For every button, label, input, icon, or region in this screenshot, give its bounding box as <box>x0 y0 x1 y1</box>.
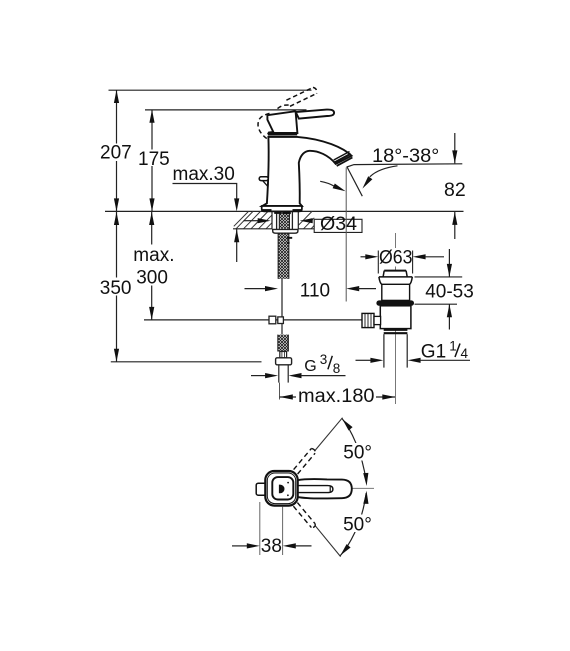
dimension G1 1/4 <box>356 359 372 361</box>
dimension max.300 line <box>151 212 153 320</box>
top view lever neck slot <box>298 486 333 493</box>
rod coupling blocks <box>269 316 276 324</box>
drain plug knob <box>383 271 407 277</box>
locknut under counter <box>273 229 298 233</box>
node: hole edges <box>271 211 273 228</box>
drain centerline <box>395 233 397 248</box>
svg-text:G: G <box>304 358 316 375</box>
svg-text:40-53: 40-53 <box>425 282 474 303</box>
drain flange dome <box>379 277 412 284</box>
top view escutcheon outer <box>265 471 297 506</box>
drain body <box>380 306 411 329</box>
dimension max.180 <box>280 396 396 398</box>
dimension 207 line <box>116 90 118 211</box>
faucet handle base <box>267 111 297 133</box>
pop-up rod horizontal + max.300 extension <box>144 319 362 321</box>
drain tail pipe G1 1/4 <box>383 334 385 367</box>
top view faucet: left tab <box>256 483 266 495</box>
svg-text:300: 300 <box>136 268 168 289</box>
top view lever <box>298 479 352 498</box>
svg-text:175: 175 <box>138 149 170 170</box>
svg-text:50°: 50° <box>343 443 372 464</box>
phantom handle lower (dashed) <box>293 503 315 528</box>
dark wedge under handle base <box>267 131 275 134</box>
spray stream diagonal <box>347 167 363 197</box>
wire: max.180 left extension <box>279 383 281 400</box>
D shaped spindle <box>279 485 285 494</box>
braided hose upper section <box>278 233 289 279</box>
supply pipe end <box>278 365 280 383</box>
wire: counter top line <box>105 210 464 212</box>
small arc arrow at vertical stream <box>320 181 334 186</box>
wire: counter bottom line <box>233 228 272 230</box>
phantom handle upper (dashed) <box>294 448 316 474</box>
50° ray upper <box>315 418 343 451</box>
svg-text:Ø63: Ø63 <box>379 248 413 269</box>
wire: spout outlet extension line down to counter and below <box>345 168 347 302</box>
label box Ø34 <box>314 219 362 232</box>
aerator lines at spout tip <box>335 154 351 163</box>
top view cartridge square <box>272 477 293 499</box>
hose collar <box>280 352 287 358</box>
svg-text:82: 82 <box>444 179 466 201</box>
svg-text:350: 350 <box>100 278 132 299</box>
O-ring seal <box>376 300 414 305</box>
faucet body with spout <box>262 137 351 206</box>
faucet base plate <box>262 206 302 211</box>
svg-text:3: 3 <box>320 352 328 367</box>
wire: top view centerline <box>331 487 375 489</box>
dimension 350 line <box>116 212 118 362</box>
leader arc to diagonal <box>370 166 398 177</box>
MAIN GROUP <box>98 87 476 556</box>
svg-text:38: 38 <box>261 536 282 557</box>
svg-text:max.30: max.30 <box>173 164 235 185</box>
50° arc upper <box>342 419 366 483</box>
drain body shoulder <box>384 329 408 331</box>
base plate bottom shadow <box>263 209 272 212</box>
wire: 207 top extension line <box>109 89 312 91</box>
counter hatch left of hole <box>234 211 272 228</box>
braided hose lower section <box>278 335 288 352</box>
svg-text:207: 207 <box>100 143 132 164</box>
dimension Ø34 arrows <box>244 220 259 222</box>
svg-text:max.180: max.180 <box>298 386 375 407</box>
svg-text:50°: 50° <box>343 514 372 535</box>
50° arc lower <box>340 493 366 556</box>
wire: 175 top extension line <box>145 109 307 111</box>
svg-text:110: 110 <box>300 280 330 301</box>
label 50° upper <box>342 443 375 461</box>
rod coupling knurled nut on drain <box>362 313 374 327</box>
svg-text:4: 4 <box>461 346 469 361</box>
svg-text:max.: max. <box>133 245 174 266</box>
G3/8 nut <box>276 358 292 365</box>
svg-text:8: 8 <box>333 361 341 376</box>
faucet lever (horizontal) <box>296 110 334 119</box>
label 50° lower <box>342 515 375 533</box>
wire: 350 bottom extension line <box>111 361 262 363</box>
dimension G3/8 arrows <box>251 375 266 377</box>
drain flange body <box>382 284 410 300</box>
counter hatch right of hole <box>299 211 315 228</box>
pop-up knob on body <box>259 177 268 181</box>
50° ray lower <box>315 526 340 557</box>
dimension 82 <box>454 133 456 163</box>
cap between handle and body <box>268 133 297 135</box>
svg-text:1: 1 <box>449 339 457 354</box>
dimension Ø63 <box>377 251 379 274</box>
threaded shank in counter <box>279 212 289 229</box>
dimension 38 <box>259 502 261 555</box>
svg-text:Ø34: Ø34 <box>320 214 357 235</box>
svg-text:G1: G1 <box>421 342 446 363</box>
handle raised position (dashed) <box>258 87 317 139</box>
dimension 40-53 <box>415 276 463 278</box>
pop-up rod vertical <box>281 279 283 335</box>
dimension max.30 bottom arrow below counter <box>236 229 238 262</box>
dimension 175 line <box>151 110 153 211</box>
